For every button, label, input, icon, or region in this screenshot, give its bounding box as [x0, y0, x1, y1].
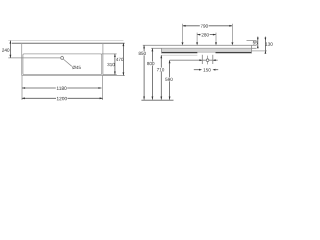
dim 710 arrows: [160, 55, 162, 99]
fixing hole arrow left 790: [182, 42, 184, 45]
dim 470 arrows: [123, 43, 125, 76]
trap level line 590/150: [170, 59, 218, 61]
dim 1180 arrows: [22, 87, 102, 89]
extension verticals below basin: [22, 76, 103, 101]
leader line O45: [63, 59, 72, 66]
drain circle O45: [61, 57, 64, 60]
extension line 130 bottom: [252, 50, 267, 52]
label 280: [202, 33, 209, 36]
dim 150 right segment: [213, 69, 219, 71]
fixing hole arrow right 790: [231, 42, 233, 45]
label 590: [165, 78, 172, 81]
floor line: [141, 99, 173, 101]
280 extension verticals: [197, 33, 216, 44]
dim 310 arrows: [114, 54, 116, 75]
fixing hole arrow left 280: [196, 42, 198, 45]
label 800 backing: [148, 62, 154, 66]
dim 55 arrows: [257, 38, 259, 49]
extension line 240 (drain centreline): [8, 57, 64, 59]
arrow diamond right: [213, 59, 216, 61]
label 150: [204, 68, 211, 71]
dim 130 line: [264, 37, 266, 53]
dim 240 line: [9, 41, 11, 58]
label 850 backing: [139, 51, 145, 55]
790 extension verticals: [183, 24, 233, 44]
dim 1200 line: [22, 97, 103, 99]
slab dark front edge left segment: [162, 52, 198, 53]
dim 590 arrows: [169, 60, 171, 99]
slab ceramic fill: [162, 49, 252, 52]
label 710: [157, 68, 164, 71]
label 240: [2, 48, 9, 51]
fixing hole arrow right 280: [215, 42, 217, 45]
dim 240 arrows: [10, 41, 12, 58]
slab right end cap: [251, 45, 253, 53]
label 710 backing: [157, 68, 163, 72]
underside line (710 level): [162, 54, 198, 56]
label 850: [139, 52, 146, 55]
dim 590 line: [169, 60, 171, 99]
label 470: [116, 58, 123, 61]
label 310: [107, 63, 114, 66]
label O45: [72, 66, 80, 69]
rim top extension line (right detail): [247, 39, 257, 41]
basin rim line (800 level): [151, 47, 256, 49]
drain pipe vertical right: [212, 55, 214, 64]
drain circle: [206, 59, 209, 62]
dim 55 line: [257, 37, 259, 48]
dim 150 left segment: [194, 69, 202, 71]
dim 790 arrows: [183, 25, 233, 27]
dim 850 line: [143, 45, 145, 99]
dim 280 arrows: [197, 34, 216, 36]
label 130: [266, 42, 273, 45]
bowl inner rect: [23, 54, 102, 75]
dim 470 line: [122, 43, 124, 76]
label 1200: [57, 97, 67, 100]
drain centre line: [207, 56, 209, 65]
label 800: [147, 62, 154, 65]
extension line 470 bottom: [103, 75, 125, 77]
dim 130 arrows: [265, 38, 267, 54]
drain pipe vertical left: [201, 55, 203, 64]
arrow diamond left: [199, 59, 202, 61]
dim 280 line: [197, 34, 216, 36]
slab dark front edge right segment: [216, 52, 252, 53]
dim 850 arrows: [143, 45, 145, 99]
label 55: [253, 41, 258, 44]
dim 800 arrows: [152, 48, 154, 99]
dim 710 line: [160, 55, 162, 99]
wall line light (plan): [8, 40, 123, 42]
dim 800 line: [151, 48, 153, 99]
dim 790 line: [183, 25, 233, 27]
dim 1200 arrows: [22, 97, 103, 99]
dim 310 line: [114, 54, 116, 75]
label 590 backing: [166, 77, 172, 81]
label 1180: [57, 87, 67, 90]
extension lines 310: [102, 54, 117, 75]
drain centre tick: [61, 56, 63, 60]
basin outer rect edges: [22, 43, 103, 76]
basin top line (850 level): [143, 44, 257, 46]
label 790: [201, 24, 208, 27]
wall line dark (plan): [12, 42, 125, 44]
slab left end cap: [161, 48, 163, 53]
slab edge gap thin line: [197, 51, 215, 53]
dim 1180 line: [22, 87, 102, 89]
